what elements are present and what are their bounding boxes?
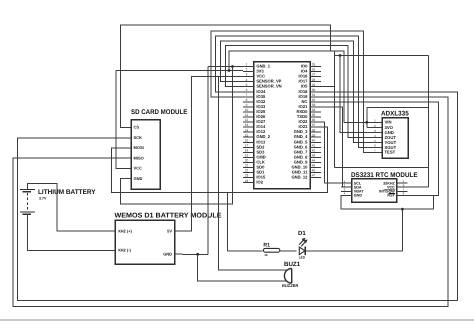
ESP32 pin 2 3V3 — [243, 71, 254, 73]
ESP32 pin 5 SENSOR_VN — [243, 86, 254, 88]
WEMOS pin XH2 (-) — [109, 249, 116, 251]
ADXL335 pin 1 VIN — [372, 121, 383, 123]
WEMOS pin XH2 (+) — [109, 230, 116, 232]
ESP32 pin 32 NC — [310, 101, 321, 103]
svg-text:CS: CS — [134, 125, 140, 130]
ADXL335 pin 7 TEST — [372, 151, 383, 153]
wire: ADXL 3VO row — [367, 127, 382, 129]
svg-text:29: 29 — [312, 83, 316, 87]
junction: 3V3 row — [228, 69, 231, 72]
DS3231 pin 8 RST — [397, 194, 408, 196]
svg-text:5V: 5V — [167, 228, 172, 233]
ESP32 pin 24 IO2 — [243, 182, 254, 184]
ESP32 pin 40 GND_5 — [310, 141, 321, 143]
ESP32 pin 15 GND_2 — [243, 136, 254, 138]
svg-text:39: 39 — [312, 133, 316, 137]
ESP32 pin 1 GND_1 — [243, 66, 254, 68]
svg-text:TEST: TEST — [385, 150, 396, 155]
ESP32 pin 8 IO32 — [243, 101, 254, 103]
wire: NC row across to DS3231 RST — [321, 102, 439, 195]
ESP32 pin 14 IO12 — [243, 131, 254, 133]
ESP32 pin 16 IO13 — [243, 141, 254, 143]
svg-text:SD CARD MODULE: SD CARD MODULE — [131, 109, 188, 116]
bottom frame line — [0, 319, 474, 321]
ESP32 pin 41 GND_6 — [310, 146, 321, 148]
svg-text:34: 34 — [312, 108, 316, 112]
wire: WEMOS 5V to ESP32 VCC — [175, 77, 243, 232]
ESP32 pin 7 IO35 — [243, 96, 254, 98]
svg-text:19: 19 — [245, 154, 249, 158]
svg-text:10: 10 — [245, 108, 249, 112]
ESP32 pin 42 GND_7 — [310, 151, 321, 153]
wire: battery - to WEMOS XH2(-) — [28, 214, 109, 250]
svg-text:42: 42 — [312, 148, 316, 152]
wire: GND bus down to SD GND — [121, 67, 233, 204]
svg-text:15: 15 — [245, 133, 249, 137]
wire: DS3231 GND loop below module — [341, 195, 434, 209]
svg-text:33: 33 — [312, 103, 316, 107]
svg-text:31: 31 — [312, 93, 316, 97]
svg-text:ADXL335: ADXL335 — [381, 111, 409, 118]
wire: GND riser to WEMOS GND — [207, 67, 209, 255]
junction: WEMOS GND — [196, 253, 199, 256]
ESP32 pin 26 IO4 — [310, 71, 321, 73]
svg-text:45: 45 — [312, 164, 316, 168]
svg-text:37: 37 — [312, 123, 316, 127]
wire: LED return riser — [401, 209, 403, 251]
ESP32 pin 30 IO18 — [310, 91, 321, 93]
svg-text:30: 30 — [312, 88, 316, 92]
junction: 3V3 rail — [339, 54, 342, 57]
overline RST — [389, 193, 395, 195]
ESP32 pin 25 IO0 — [310, 66, 321, 68]
svg-text:RST: RST — [387, 194, 395, 198]
ESP32 pin 20 CLK — [243, 161, 254, 163]
svg-text:WEMOS D1 BATTERY MODULE: WEMOS D1 BATTERY MODULE — [115, 213, 222, 220]
svg-text:LED: LED — [299, 256, 306, 260]
ESP32 pin 46 GND_11 — [310, 172, 321, 174]
svg-text:41: 41 — [312, 143, 316, 147]
svg-text:22: 22 — [245, 169, 249, 173]
wire: SD MOSI to IO23 — [111, 127, 327, 192]
wire: ADXL VIN row — [344, 121, 382, 123]
svg-text:35: 35 — [312, 113, 316, 117]
wire: SD CS to IO5 / 3V3 loop (top outer) — [120, 25, 334, 167]
wire: 3V3 to ADXL VIN (nested line F) — [229, 51, 344, 122]
wire: IO21 to DS3231 SDA — [321, 107, 352, 187]
ESP32 pin 13 IO14 — [243, 126, 254, 128]
ESP32 pin 28 IO17 — [310, 81, 321, 83]
svg-text:9: 9 — [246, 103, 248, 107]
wire: right vertical down to DS3231 VCC — [428, 56, 430, 188]
ESP32 pin 47 GND_12 — [310, 177, 321, 179]
ESP32 pin 39 GND_4 — [310, 136, 321, 138]
wire: to R1 left terminal — [228, 250, 263, 252]
buzzer BUZ1 symbol — [284, 269, 291, 284]
svg-text:44: 44 — [312, 159, 316, 163]
svg-text:46: 46 — [312, 169, 316, 173]
wire: DS3231 VCC extension — [407, 186, 428, 188]
wire: ADXL GND riser from 3V3 rail line — [340, 56, 382, 133]
SD card pin MISO — [121, 157, 132, 159]
svg-text:BUZ1: BUZ1 — [284, 261, 301, 268]
svg-text:DS3231 RTC MODULE: DS3231 RTC MODULE — [351, 172, 418, 179]
svg-text:40: 40 — [312, 138, 316, 142]
LED D1 diode symbol — [299, 247, 305, 255]
ESP32 pin 11 IO26 — [243, 116, 254, 118]
DS3231 pin 1 SCL — [341, 182, 352, 184]
SD card pin GND — [121, 178, 132, 180]
svg-text:16: 16 — [245, 138, 249, 142]
svg-text:13: 13 — [245, 123, 249, 127]
svg-text:3.7V: 3.7V — [39, 196, 47, 200]
svg-text:26: 26 — [312, 68, 316, 72]
resistor R1 body — [263, 248, 279, 252]
DS3231 RTC module body — [352, 179, 397, 203]
DS3231 pin 6 VCC — [397, 186, 408, 188]
svg-text:24: 24 — [245, 179, 249, 183]
svg-text:18: 18 — [245, 148, 249, 152]
junction: GND_1 — [231, 65, 234, 68]
junction: ADXL VIN/3VO — [365, 121, 368, 124]
svg-text:38: 38 — [312, 128, 316, 132]
ESP32 pin 17 SD2 — [243, 146, 254, 148]
ADXL335 pin 5 YOUT — [372, 142, 383, 144]
wire: IO5 stub extension — [321, 86, 335, 88]
ADXL335 body — [382, 118, 408, 159]
ESP32 pin 34 RXD0 — [310, 111, 321, 113]
battery BT1 symbol (two cells with dashed middle) — [20, 189, 35, 191]
wire: loop top horizontal above ADXL335 — [367, 106, 429, 108]
svg-text:21: 21 — [245, 164, 249, 168]
ESP32 pin 38 GND_3 — [310, 131, 321, 133]
ESP32 pin 12 IO27 — [243, 121, 254, 123]
ESP32 pin 19 CMD — [243, 156, 254, 158]
ESP32 pin 10 IO25 — [243, 111, 254, 113]
svg-text:IO2: IO2 — [256, 180, 263, 185]
ESP32 pin 6 IO34 — [243, 91, 254, 93]
ESP32 pin 27 IO16 — [310, 76, 321, 78]
ESP32 pin 23 IO15 — [243, 177, 254, 179]
ESP32 pin 9 IO33 — [243, 106, 254, 108]
ESP32 pin 43 GND_8 — [310, 156, 321, 158]
wire: GND_1 row extension — [208, 66, 243, 68]
DS3231 pin 3 VBAT — [341, 190, 352, 192]
wire: SENSOR_VP to ADXL YOUT (nested line D) — [221, 41, 383, 143]
svg-text:LITHIUM BATTERY: LITHIUM BATTERY — [38, 189, 96, 196]
wire: IO22 to DS3231 SCL — [321, 122, 352, 183]
svg-text:28: 28 — [312, 78, 316, 82]
svg-text:12: 12 — [245, 118, 249, 122]
svg-text:GND: GND — [163, 251, 172, 256]
svg-text:27: 27 — [312, 73, 316, 77]
svg-text:MOSI: MOSI — [134, 145, 144, 150]
svg-text:36: 36 — [312, 118, 316, 122]
wire: GND to buzzer bottom terminal — [198, 254, 287, 281]
ESP32 pin 18 SD3 — [243, 151, 254, 153]
wire: 3V3 rail top horizontal to right — [335, 55, 429, 57]
wire: loop bottom horizontal under ADXL335 — [335, 166, 429, 168]
ESP32 pin 36 IO22 — [310, 121, 321, 123]
svg-text:GND: GND — [354, 194, 363, 198]
svg-text:47: 47 — [312, 174, 316, 178]
wire: buzzer top terminal riser from VCC row — [219, 77, 288, 270]
ESP32 pin 37 IO23 — [310, 126, 321, 128]
WEMOS D1 battery module body — [115, 220, 174, 264]
SD card pin MOSI — [121, 147, 132, 149]
ESP32 pin 35 TXD0 — [310, 116, 321, 118]
WEMOS pin 5V — [175, 230, 183, 232]
svg-text:25: 25 — [312, 63, 316, 67]
ESP32 pin 31 IO19 — [310, 96, 321, 98]
wire: down to SD VCC — [116, 71, 131, 169]
wire: SD MISO to IO19 (bottom loop, crossing) — [13, 97, 448, 306]
svg-text:GND: GND — [134, 176, 143, 181]
ADXL335 pin 2 3VO — [372, 127, 383, 129]
ADXL335 pin 6 XOUT — [372, 146, 383, 148]
DS3231 pin 4 GND — [341, 194, 352, 196]
ADXL335 pin 3 GND — [372, 132, 383, 134]
ESP32 pin 44 GND_9 — [310, 161, 321, 163]
svg-text:D1: D1 — [298, 230, 306, 237]
DS3231 pin 7 INT/SQW — [397, 190, 408, 192]
svg-text:17: 17 — [245, 143, 249, 147]
wire: SD SCK to IO18 (bottom outer loop) — [18, 92, 458, 301]
svg-text:20: 20 — [245, 159, 249, 163]
junction: DS GND / LED return — [401, 208, 404, 211]
ESP32 pin 3 VCC — [243, 76, 254, 78]
svg-text:VIN: VIN — [385, 120, 392, 125]
svg-text:14: 14 — [245, 128, 249, 132]
svg-text:6: 6 — [246, 88, 248, 92]
ESP32 pin 45 GND_10 — [310, 167, 321, 169]
LED D1 arrows — [299, 239, 304, 245]
svg-text:43: 43 — [312, 154, 316, 158]
svg-text:8: 8 — [246, 98, 248, 102]
wire: SENSOR_VN to ADXL ZOUT (nested line E) — [225, 46, 382, 138]
svg-text:MISO: MISO — [134, 155, 144, 160]
wire: battery + to WEMOS XH2(+) — [28, 183, 109, 231]
svg-text:XH2 (+): XH2 (+) — [118, 228, 133, 233]
ESP32 pin 22 SD1 — [243, 172, 254, 174]
ESP32 pin 33 IO21 — [310, 106, 321, 108]
svg-text:R1: R1 — [263, 243, 270, 249]
SD card module body — [131, 120, 160, 190]
SD card pin CS — [121, 127, 132, 129]
SD card pin SCK — [121, 137, 132, 139]
DS3231 pin 2 SDA — [341, 186, 352, 188]
SD card pin VCC — [121, 168, 132, 170]
wire: down to ADXL VIN/3VO — [366, 107, 368, 127]
ESP32 module U1 body — [254, 62, 310, 189]
WEMOS pin GND — [175, 253, 183, 255]
svg-text:3: 3 — [246, 73, 248, 77]
wire: R1 to LED anode — [280, 250, 297, 252]
DS3231 pin 5 32KHZ — [397, 182, 408, 184]
svg-text:32: 32 — [312, 98, 316, 102]
svg-text:SCK: SCK — [134, 135, 143, 140]
wire: LED cathode to return riser — [305, 250, 402, 252]
overline INT/SQW — [384, 188, 395, 190]
svg-text:VCC: VCC — [134, 166, 143, 171]
svg-text:11: 11 — [245, 113, 249, 117]
svg-text:23: 23 — [245, 174, 249, 178]
svg-text:GND_12: GND_12 — [291, 175, 308, 180]
svg-text:5: 5 — [246, 83, 248, 87]
svg-text:2: 2 — [246, 68, 248, 72]
ESP32 pin 29 IO5 — [310, 86, 321, 88]
wire: IO34 to ADXL XOUT (nested line C) — [216, 36, 383, 147]
svg-text:1: 1 — [246, 63, 248, 67]
svg-text:7: 7 — [246, 93, 248, 97]
wire: WEMOS GND row — [182, 253, 208, 255]
wire: 3V3 row long horizontal — [116, 70, 243, 72]
ADXL335 pin 4 ZOUT — [372, 137, 383, 139]
svg-text:XH2 (-): XH2 (-) — [118, 248, 132, 253]
ESP32 pin 21 SD0 — [243, 167, 254, 169]
wire: IO35 to ADXL TEST (nested line B) — [211, 31, 382, 153]
ESP32 pin 4 SENSOR_VP — [243, 81, 254, 83]
svg-text:1k: 1k — [264, 253, 268, 257]
svg-text:4: 4 — [246, 78, 248, 82]
wire: R1 riser — [227, 192, 229, 250]
